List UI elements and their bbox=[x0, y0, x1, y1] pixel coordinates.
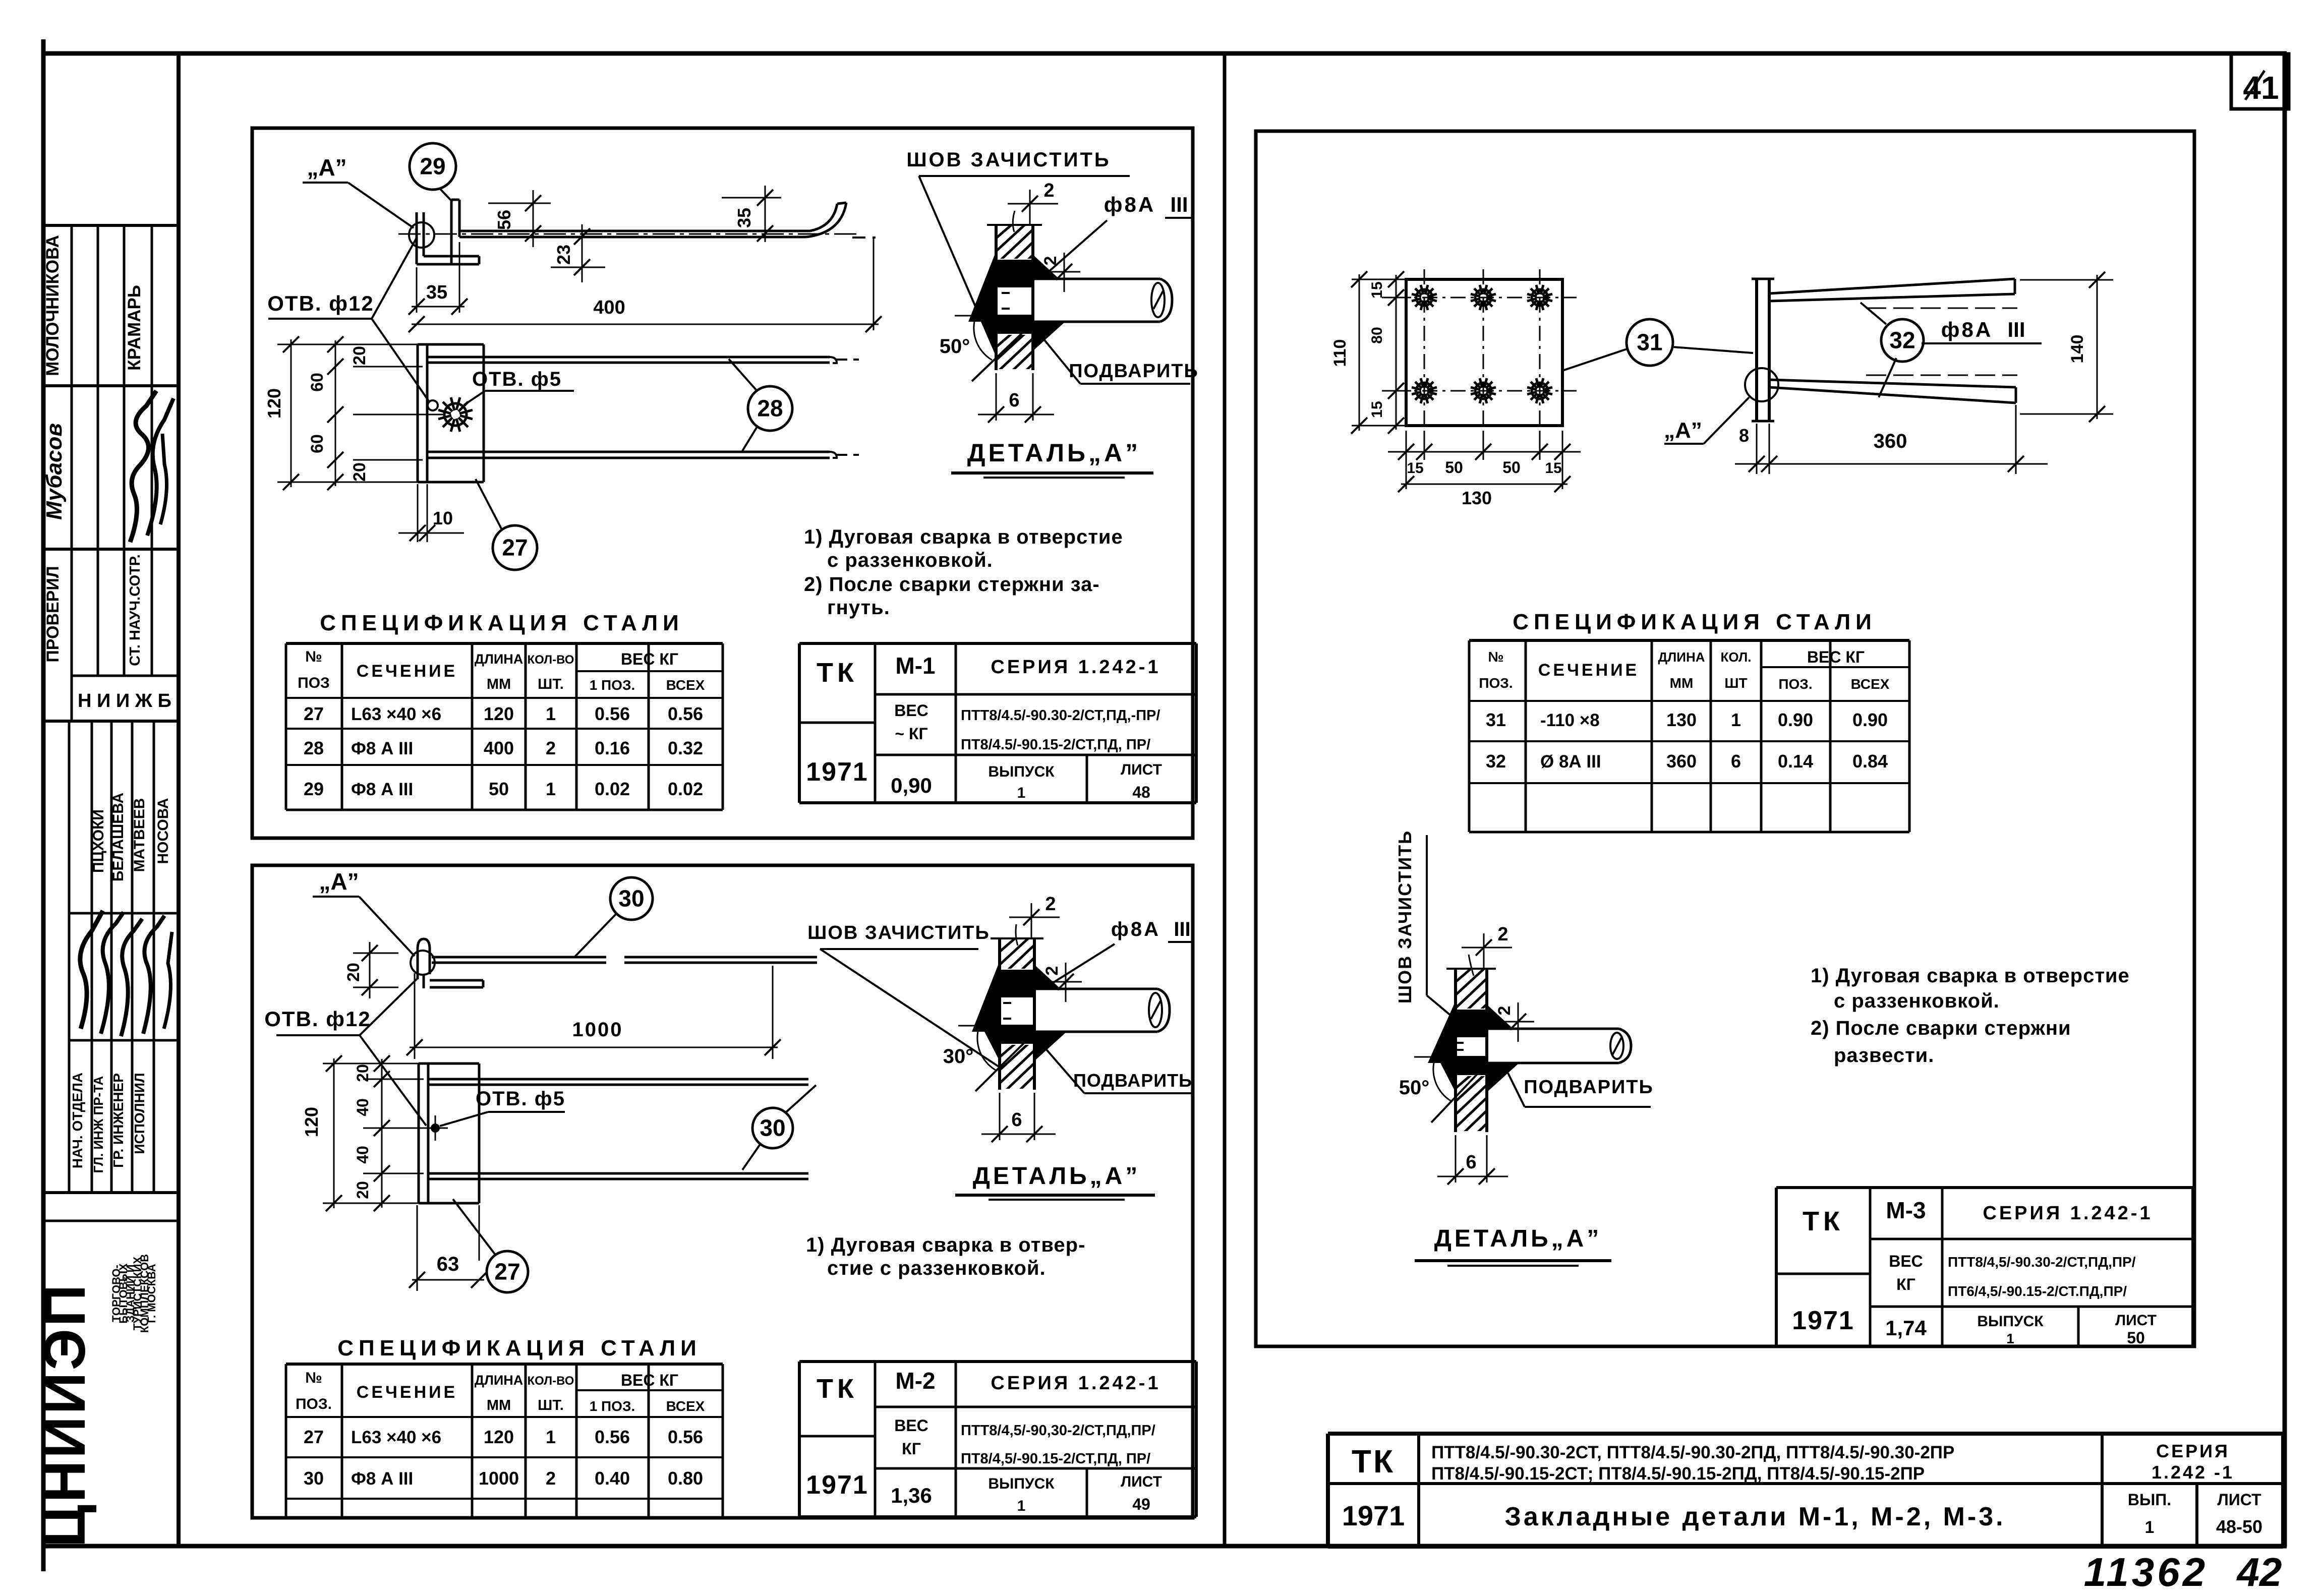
svg-text:60: 60 bbox=[308, 373, 327, 392]
svg-text:0.80: 0.80 bbox=[668, 1468, 703, 1489]
svg-text:НОСОВА: НОСОВА bbox=[155, 798, 171, 864]
svg-text:с раззенковкой.: с раззенковкой. bbox=[827, 549, 993, 571]
svg-text:48: 48 bbox=[1132, 783, 1150, 801]
svg-text:СПЕЦИФИКАЦИЯ СТАЛИ: СПЕЦИФИКАЦИЯ СТАЛИ bbox=[1513, 610, 1877, 634]
svg-text:50: 50 bbox=[2127, 1329, 2145, 1347]
svg-text:ОТВ. ф12: ОТВ. ф12 bbox=[267, 291, 374, 315]
svg-text:40: 40 bbox=[354, 1146, 372, 1164]
svg-text:развести.: развести. bbox=[1834, 1044, 1934, 1067]
svg-text:ПРОВЕРИЛ: ПРОВЕРИЛ bbox=[43, 566, 63, 662]
svg-text:30: 30 bbox=[304, 1468, 324, 1489]
svg-text:ВЕС: ВЕС bbox=[894, 701, 928, 720]
svg-text:ОТВ. ф5: ОТВ. ф5 bbox=[472, 368, 562, 390]
svg-text:№: № bbox=[305, 648, 322, 665]
svg-text:Г. МОСКВА: Г. МОСКВА bbox=[145, 1264, 158, 1323]
svg-text:1: 1 bbox=[2145, 1518, 2155, 1537]
svg-text:360: 360 bbox=[1874, 430, 1907, 452]
svg-text:ОТВ. ф12: ОТВ. ф12 bbox=[264, 1007, 371, 1031]
svg-text:ПТТ8/4,5/-90,30-2/СТ,ПД,ПР/: ПТТ8/4,5/-90,30-2/СТ,ПД,ПР/ bbox=[961, 1423, 1155, 1439]
svg-text:27: 27 bbox=[304, 703, 324, 724]
svg-text:ПОЗ: ПОЗ bbox=[298, 675, 330, 691]
svg-text:СЕРИЯ 1.242-1: СЕРИЯ 1.242-1 bbox=[1983, 1203, 2153, 1224]
svg-text:L63 ×40 ×6: L63 ×40 ×6 bbox=[351, 704, 441, 724]
svg-text:ТК: ТК bbox=[817, 1374, 858, 1404]
svg-text:„А”: „А” bbox=[1664, 418, 1702, 443]
svg-text:Мубасов: Мубасов bbox=[42, 423, 67, 520]
svg-text:ГР. ИНЖЕНЕР: ГР. ИНЖЕНЕР bbox=[110, 1073, 126, 1168]
svg-text:15: 15 bbox=[1545, 460, 1561, 477]
svg-text:40: 40 bbox=[354, 1098, 372, 1116]
svg-text:ф8А: ф8А bbox=[1111, 918, 1160, 940]
svg-text:32: 32 bbox=[1889, 327, 1915, 353]
svg-text:ГЛ. ИНЖ ПР-ТА: ГЛ. ИНЖ ПР-ТА bbox=[91, 1076, 106, 1173]
svg-text:20: 20 bbox=[344, 963, 363, 982]
svg-text:29: 29 bbox=[420, 153, 445, 180]
svg-text:120: 120 bbox=[301, 1107, 322, 1137]
svg-text:1971: 1971 bbox=[806, 757, 868, 787]
svg-text:0.02: 0.02 bbox=[668, 779, 703, 799]
svg-text:ТК: ТК bbox=[1352, 1443, 1395, 1480]
svg-text:КОЛ-ВО: КОЛ-ВО bbox=[528, 1374, 574, 1388]
svg-text:20: 20 bbox=[350, 462, 369, 482]
svg-text:СЕРИЯ 1.242-1: СЕРИЯ 1.242-1 bbox=[991, 1373, 1160, 1394]
svg-text:2: 2 bbox=[1497, 924, 1508, 945]
svg-text:0.56: 0.56 bbox=[595, 1427, 630, 1447]
svg-text:35: 35 bbox=[734, 208, 754, 228]
svg-text:ВЕС: ВЕС bbox=[1889, 1252, 1923, 1270]
svg-text:0.90: 0.90 bbox=[1852, 710, 1888, 730]
svg-text:ТК: ТК bbox=[817, 658, 858, 688]
svg-text:50: 50 bbox=[1502, 458, 1521, 477]
svg-text:1 ПОЗ.: 1 ПОЗ. bbox=[590, 1398, 635, 1414]
svg-text:50°: 50° bbox=[1399, 1077, 1430, 1099]
svg-text:1: 1 bbox=[546, 703, 556, 724]
svg-text:27: 27 bbox=[502, 535, 528, 561]
svg-text:50°: 50° bbox=[940, 335, 970, 358]
svg-text:СЕЧЕНИЕ: СЕЧЕНИЕ bbox=[357, 1383, 457, 1402]
svg-text:1: 1 bbox=[2006, 1331, 2014, 1346]
svg-text:32: 32 bbox=[1486, 751, 1506, 772]
svg-text:1971: 1971 bbox=[806, 1470, 868, 1500]
svg-text:ОТВ. ф5: ОТВ. ф5 bbox=[476, 1088, 565, 1110]
svg-text:2: 2 bbox=[546, 738, 556, 758]
svg-text:ВСЕХ: ВСЕХ bbox=[666, 1398, 705, 1414]
svg-text:ДЛИНА: ДЛИНА bbox=[475, 1373, 524, 1388]
svg-text:27: 27 bbox=[304, 1427, 324, 1447]
svg-text:III: III bbox=[2007, 318, 2025, 341]
svg-text:2) После сварки стержни: 2) После сварки стержни bbox=[1811, 1017, 2071, 1039]
svg-text:ДЛИНА: ДЛИНА bbox=[1658, 649, 1705, 665]
svg-text:30°: 30° bbox=[943, 1045, 974, 1068]
svg-text:ВЫП.: ВЫП. bbox=[2128, 1491, 2171, 1509]
svg-text:1: 1 bbox=[1731, 710, 1741, 730]
svg-text:130: 130 bbox=[1666, 710, 1697, 730]
svg-text:0.32: 0.32 bbox=[668, 738, 703, 758]
svg-text:60: 60 bbox=[308, 434, 327, 453]
svg-text:КРАМАРЬ: КРАМАРЬ bbox=[125, 285, 144, 371]
svg-text:ЛИСТ: ЛИСТ bbox=[1121, 1473, 1162, 1490]
svg-text:ЦНИИЭП: ЦНИИЭП bbox=[32, 1282, 97, 1547]
svg-text:10: 10 bbox=[433, 508, 453, 528]
svg-text:48-50: 48-50 bbox=[2216, 1516, 2262, 1537]
svg-text:ПТТ8/4.5/-90.30-2/СТ,ПД,-ПР/: ПТТ8/4.5/-90.30-2/СТ,ПД,-ПР/ bbox=[961, 707, 1160, 724]
svg-text:ПОДВАРИТЬ: ПОДВАРИТЬ bbox=[1524, 1077, 1654, 1098]
svg-text:0.90: 0.90 bbox=[1778, 710, 1813, 730]
svg-text:ПТ8/4.5/-90.15-2/СТ,ПД, ПР/: ПТ8/4.5/-90.15-2/СТ,ПД, ПР/ bbox=[961, 737, 1150, 753]
svg-text:1000: 1000 bbox=[479, 1468, 519, 1489]
svg-text:ПОДВАРИТЬ: ПОДВАРИТЬ bbox=[1073, 1070, 1192, 1091]
svg-text:ШОВ ЗАЧИСТИТЬ: ШОВ ЗАЧИСТИТЬ bbox=[807, 922, 990, 943]
svg-text:130: 130 bbox=[1462, 488, 1492, 508]
svg-text:Ф8 А III: Ф8 А III bbox=[351, 739, 413, 758]
svg-text:49: 49 bbox=[1132, 1495, 1150, 1513]
svg-text:„А”: „А” bbox=[319, 868, 359, 895]
svg-text:6: 6 bbox=[1731, 751, 1741, 772]
svg-text:28: 28 bbox=[757, 395, 783, 422]
svg-text:СЕРИЯ: СЕРИЯ bbox=[2156, 1441, 2230, 1461]
svg-text:120: 120 bbox=[264, 388, 284, 419]
svg-text:ПОДВАРИТЬ: ПОДВАРИТЬ bbox=[1069, 361, 1199, 382]
svg-text:400: 400 bbox=[484, 738, 514, 758]
svg-text:0.56: 0.56 bbox=[668, 703, 703, 724]
svg-text:29: 29 bbox=[304, 779, 324, 799]
svg-text:0.02: 0.02 bbox=[595, 779, 630, 799]
svg-text:360: 360 bbox=[1666, 751, 1697, 772]
svg-text:НАЧ. ОТДЕЛА: НАЧ. ОТДЕЛА bbox=[70, 1073, 85, 1168]
svg-text:ШОВ ЗАЧИСТИТЬ: ШОВ ЗАЧИСТИТЬ bbox=[1395, 830, 1415, 1003]
svg-text:ВЕС КГ: ВЕС КГ bbox=[621, 650, 678, 668]
svg-text:ШТ: ШТ bbox=[1724, 675, 1747, 691]
svg-text:с раззенковкой.: с раззенковкой. bbox=[1834, 990, 2000, 1012]
svg-text:МОЛОЧНИКОВА: МОЛОЧНИКОВА bbox=[43, 235, 63, 376]
svg-text:1) Дуговая сварка в отверстие: 1) Дуговая сварка в отверстие bbox=[804, 526, 1123, 548]
svg-text:20: 20 bbox=[354, 1064, 372, 1082]
svg-text:ВСЕХ: ВСЕХ bbox=[1851, 676, 1890, 692]
svg-text:0.84: 0.84 bbox=[1852, 751, 1888, 772]
svg-text:1.242 -1: 1.242 -1 bbox=[2152, 1462, 2234, 1483]
svg-text:42: 42 bbox=[2236, 1550, 2282, 1594]
svg-text:1: 1 bbox=[1017, 1498, 1026, 1514]
svg-text:0.14: 0.14 bbox=[1778, 751, 1813, 772]
svg-text:-110 ×8: -110 ×8 bbox=[1540, 711, 1600, 730]
svg-text:гнуть.: гнуть. bbox=[827, 597, 890, 619]
svg-text:СЕЧЕНИЕ: СЕЧЕНИЕ bbox=[1538, 661, 1639, 680]
svg-text:ПОЗ.: ПОЗ. bbox=[1778, 676, 1812, 692]
svg-text:КОЛ-ВО: КОЛ-ВО bbox=[528, 653, 574, 667]
svg-text:120: 120 bbox=[484, 1427, 514, 1447]
svg-text:III: III bbox=[1170, 193, 1188, 216]
svg-text:Закладные детали М-1, М-2, М: Закладные детали М-1, М-2, М-3. bbox=[1504, 1502, 2005, 1531]
svg-text:ВЫПУСК: ВЫПУСК bbox=[988, 763, 1055, 780]
svg-text:СПЕЦИФИКАЦИЯ СТАЛИ: СПЕЦИФИКАЦИЯ СТАЛИ bbox=[337, 1336, 702, 1361]
svg-text:2: 2 bbox=[1495, 1006, 1514, 1016]
svg-text:ВЕС КГ: ВЕС КГ bbox=[621, 1371, 678, 1389]
svg-text:120: 120 bbox=[484, 703, 514, 724]
svg-text:ПТТ8/4.5/-90.30-2СТ, ПТТ8/4.5: ПТТ8/4.5/-90.30-2СТ, ПТТ8/4.5/-90.30-2ПД… bbox=[1431, 1443, 1954, 1462]
svg-text:27: 27 bbox=[494, 1259, 520, 1285]
svg-text:6: 6 bbox=[1009, 390, 1019, 411]
svg-text:ПОЗ.: ПОЗ. bbox=[1479, 675, 1513, 691]
svg-text:1971: 1971 bbox=[1792, 1306, 1854, 1335]
svg-text:№: № bbox=[1488, 649, 1503, 665]
svg-text:0.16: 0.16 bbox=[595, 738, 630, 758]
svg-text:80: 80 bbox=[1369, 327, 1385, 343]
svg-text:ВЕС: ВЕС bbox=[894, 1416, 928, 1435]
svg-text:0.40: 0.40 bbox=[595, 1468, 630, 1489]
svg-text:ММ: ММ bbox=[487, 676, 511, 692]
svg-text:КОЛ.: КОЛ. bbox=[1721, 649, 1752, 665]
svg-text:Ф8 А III: Ф8 А III bbox=[351, 1469, 413, 1489]
svg-text:„А”: „А” bbox=[307, 154, 346, 181]
svg-text:2: 2 bbox=[1045, 894, 1056, 915]
svg-text:ЛИСТ: ЛИСТ bbox=[2217, 1491, 2261, 1509]
svg-text:20: 20 bbox=[350, 346, 369, 365]
svg-text:1971: 1971 bbox=[1342, 1500, 1405, 1531]
svg-text:15: 15 bbox=[1369, 281, 1385, 298]
svg-text:МАТВЕЕВ: МАТВЕЕВ bbox=[131, 798, 148, 872]
svg-text:Н И И Ж Б: Н И И Ж Б bbox=[78, 690, 171, 712]
svg-text:III: III bbox=[1174, 918, 1190, 940]
svg-text:ДЛИНА: ДЛИНА bbox=[475, 652, 524, 667]
svg-text:23: 23 bbox=[553, 245, 574, 265]
svg-text:КГ: КГ bbox=[1896, 1275, 1915, 1293]
svg-text:ВЫПУСК: ВЫПУСК bbox=[988, 1475, 1055, 1492]
svg-text:М-1: М-1 bbox=[895, 653, 935, 679]
svg-text:ф8А: ф8А bbox=[1941, 318, 1993, 341]
svg-text:6: 6 bbox=[1011, 1109, 1022, 1131]
svg-text:СЕЧЕНИЕ: СЕЧЕНИЕ bbox=[357, 662, 457, 681]
svg-text:56: 56 bbox=[494, 210, 514, 230]
svg-text:ПТ8/4.5/-90.15-2СТ; ПТ8/4.5/-: ПТ8/4.5/-90.15-2СТ; ПТ8/4.5/-90.15-2ПД, … bbox=[1431, 1464, 1925, 1484]
svg-text:31: 31 bbox=[1486, 710, 1506, 730]
svg-text:110: 110 bbox=[1330, 339, 1350, 367]
svg-text:140: 140 bbox=[2068, 335, 2087, 364]
svg-text:50: 50 bbox=[1445, 458, 1463, 477]
svg-text:ПТ8/4,5/-90.15-2/СТ,ПД, ПР/: ПТ8/4,5/-90.15-2/СТ,ПД, ПР/ bbox=[961, 1451, 1150, 1467]
svg-text:400: 400 bbox=[593, 297, 625, 318]
svg-text:СТ. НАУЧ.СОТР.: СТ. НАУЧ.СОТР. bbox=[127, 554, 143, 666]
svg-text:31: 31 bbox=[1637, 329, 1662, 356]
svg-text:ИСПОЛНИЛ: ИСПОЛНИЛ bbox=[132, 1073, 147, 1154]
svg-text:ТК: ТК bbox=[1803, 1206, 1844, 1236]
svg-text:L63 ×40 ×6: L63 ×40 ×6 bbox=[351, 1428, 441, 1447]
svg-text:2: 2 bbox=[1042, 966, 1062, 976]
svg-text:ПТ6/4,5/-90.15-2/СТ.ПД,ПР/: ПТ6/4,5/-90.15-2/СТ.ПД,ПР/ bbox=[1948, 1283, 2127, 1299]
svg-text:0,90: 0,90 bbox=[891, 774, 932, 797]
svg-text:50: 50 bbox=[489, 779, 509, 799]
svg-text:ВЕС КГ: ВЕС КГ bbox=[1807, 648, 1865, 666]
svg-text:ВСЕХ: ВСЕХ bbox=[666, 677, 705, 693]
svg-text:1,36: 1,36 bbox=[891, 1484, 932, 1507]
svg-text:Ø 8А III: Ø 8А III bbox=[1540, 752, 1601, 772]
svg-text:ЛИСТ: ЛИСТ bbox=[1121, 761, 1162, 778]
svg-text:1 ПОЗ.: 1 ПОЗ. bbox=[590, 677, 635, 693]
svg-text:20: 20 bbox=[354, 1181, 372, 1199]
svg-text:63: 63 bbox=[437, 1253, 459, 1275]
svg-text:ШОВ ЗАЧИСТИТЬ: ШОВ ЗАЧИСТИТЬ bbox=[906, 149, 1111, 171]
svg-text:1) Дуговая сварка в отверстие: 1) Дуговая сварка в отверстие bbox=[1811, 965, 2130, 987]
svg-text:1: 1 bbox=[546, 779, 556, 799]
svg-text:ДЕТАЛЬ„А”: ДЕТАЛЬ„А” bbox=[973, 1163, 1141, 1190]
svg-text:СЕРИЯ 1.242-1: СЕРИЯ 1.242-1 bbox=[991, 657, 1160, 678]
svg-text:1000: 1000 bbox=[572, 1019, 623, 1041]
svg-text:0.56: 0.56 bbox=[595, 703, 630, 724]
svg-text:стие с раззенковкой.: стие с раззенковкой. bbox=[827, 1257, 1046, 1279]
svg-text:15: 15 bbox=[1369, 401, 1385, 418]
svg-text:30: 30 bbox=[618, 885, 644, 912]
svg-text:30: 30 bbox=[760, 1115, 785, 1141]
svg-text:ММ: ММ bbox=[1670, 675, 1694, 691]
svg-text:ШТ.: ШТ. bbox=[538, 676, 564, 692]
svg-text:ДЕТАЛЬ„А”: ДЕТАЛЬ„А” bbox=[967, 439, 1141, 467]
svg-text:ММ: ММ bbox=[487, 1397, 511, 1413]
svg-text:1,74: 1,74 bbox=[1885, 1316, 1927, 1340]
svg-text:КГ: КГ bbox=[902, 1440, 921, 1458]
svg-text:ШТ.: ШТ. bbox=[538, 1397, 564, 1413]
svg-text:ПТТ8/4,5/-90.30-2/СТ,ПД,ПР/: ПТТ8/4,5/-90.30-2/СТ,ПД,ПР/ bbox=[1948, 1254, 2136, 1270]
svg-text:М-2: М-2 bbox=[895, 1368, 935, 1394]
svg-text:11362: 11362 bbox=[2084, 1550, 2209, 1594]
svg-text:15: 15 bbox=[1407, 460, 1423, 477]
svg-text:ф8А: ф8А bbox=[1104, 193, 1155, 216]
svg-text:№: № bbox=[305, 1370, 322, 1386]
svg-text:ДЕТАЛЬ„А”: ДЕТАЛЬ„А” bbox=[1434, 1225, 1602, 1252]
svg-text:2) После сварки стержни за-: 2) После сварки стержни за- bbox=[804, 573, 1100, 596]
svg-text:6: 6 bbox=[1466, 1152, 1476, 1173]
svg-text:35: 35 bbox=[426, 282, 447, 303]
svg-text:8: 8 bbox=[1739, 425, 1749, 446]
svg-text:СПЕЦИФИКАЦИЯ СТАЛИ: СПЕЦИФИКАЦИЯ СТАЛИ bbox=[320, 611, 684, 635]
svg-text:1) Дуговая сварка в отвер-: 1) Дуговая сварка в отвер- bbox=[806, 1234, 1085, 1256]
svg-text:М-3: М-3 bbox=[1886, 1197, 1926, 1223]
svg-text:~ КГ: ~ КГ bbox=[895, 725, 927, 743]
svg-text:ПЦХОКИ: ПЦХОКИ bbox=[90, 809, 107, 873]
svg-text:Ф8 А III: Ф8 А III bbox=[351, 780, 413, 799]
svg-text:ЛИСТ: ЛИСТ bbox=[2115, 1312, 2157, 1329]
svg-text:28: 28 bbox=[304, 738, 324, 758]
svg-text:2: 2 bbox=[1043, 180, 1054, 201]
svg-text:ПОЗ.: ПОЗ. bbox=[296, 1396, 332, 1412]
svg-text:2: 2 bbox=[546, 1468, 556, 1489]
svg-text:0.56: 0.56 bbox=[668, 1427, 703, 1447]
svg-text:ВЫПУСК: ВЫПУСК bbox=[1977, 1313, 2044, 1330]
svg-text:1: 1 bbox=[546, 1427, 556, 1447]
svg-text:1: 1 bbox=[1017, 785, 1026, 801]
svg-text:БЕЛАШЕВА: БЕЛАШЕВА bbox=[110, 793, 127, 881]
